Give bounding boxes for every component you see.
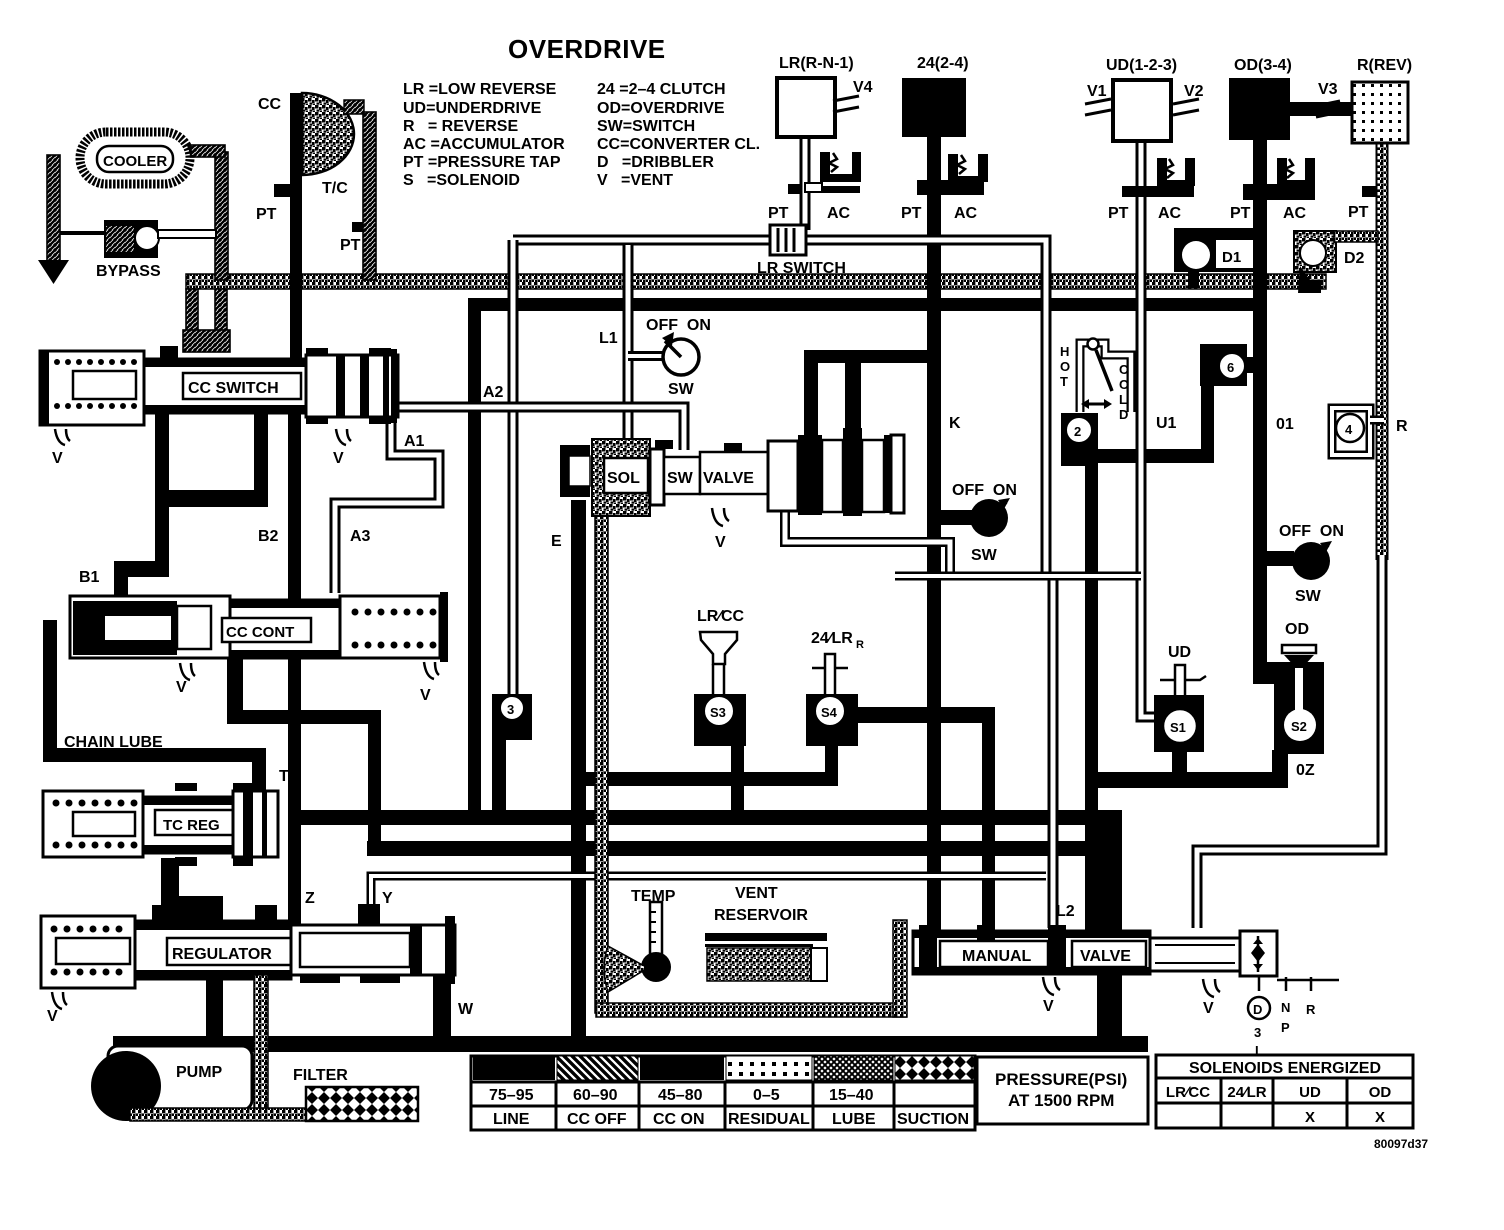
pipe: cooler left pipe down to arrow	[47, 155, 60, 263]
svg-text:CHAIN LUBE: CHAIN LUBE	[64, 734, 163, 751]
svg-text:T: T	[279, 768, 289, 785]
wire: bar3 y848 (x367-1122)	[367, 841, 1122, 856]
svg-text:SW: SW	[1295, 588, 1322, 605]
svg-text:Z: Z	[305, 890, 315, 907]
svg-text:OD=OVERDRIVE: OD=OVERDRIVE	[597, 100, 725, 117]
svg-text:V: V	[47, 1008, 58, 1025]
svg-text:LR SWITCH: LR SWITCH	[757, 260, 846, 277]
wire: B1 vertical x162 and jog to CC CONT	[155, 411, 169, 561]
wire: 24 to SW branch	[936, 510, 972, 525]
svg-text:A2: A2	[483, 384, 504, 401]
wire: long stippled lube line y281	[186, 274, 1326, 289]
manual valve bottom ports and vents	[1043, 977, 1060, 995]
svg-text:S =SOLENOID: S =SOLENOID	[403, 172, 520, 189]
channel: LR switch horizontal line y240 + x1040 vertical + L2 drop	[513, 240, 1053, 928]
svg-text:SW: SW	[667, 470, 694, 487]
svg-text:S3: S3	[710, 705, 726, 720]
svg-text:UD: UD	[1299, 1084, 1321, 1101]
svg-text:CC CONT: CC CONT	[226, 624, 294, 641]
svg-text:D: D	[1119, 407, 1128, 422]
vent V under CC SWITCH left	[55, 429, 70, 445]
svg-text:6: 6	[1227, 360, 1234, 375]
vent V under CC CONT	[180, 663, 195, 680]
svg-text:3: 3	[1254, 1025, 1261, 1040]
svg-text:O: O	[1060, 359, 1070, 374]
svg-text:W: W	[458, 1001, 474, 1018]
svg-text:0–5: 0–5	[753, 1087, 780, 1104]
svg-text:0Z: 0Z	[1296, 762, 1315, 779]
thermometer TEMP	[604, 888, 676, 992]
wire: manual valve bottom drop to bottom bar	[1097, 970, 1122, 1040]
accumulator AC (UD)	[1108, 158, 1195, 222]
svg-text:VENT: VENT	[735, 885, 778, 902]
svg-text:PT: PT	[768, 205, 789, 222]
accumulator AC (24)	[901, 154, 988, 222]
check valve	[1240, 931, 1277, 976]
svg-text:TC REG: TC REG	[163, 817, 220, 834]
node 3 (circled)	[492, 694, 532, 814]
svg-text:V: V	[715, 534, 726, 551]
svg-text:SW=SWITCH: SW=SWITCH	[597, 118, 695, 135]
vent V under CC SWITCH right	[336, 429, 351, 445]
svg-text:RESERVOIR: RESERVOIR	[714, 907, 808, 924]
svg-text:AC: AC	[954, 205, 978, 222]
wire: S1 stub down	[1172, 752, 1187, 774]
UD(1-2-3) servo box	[1085, 57, 1204, 141]
svg-text:UD(1-2-3): UD(1-2-3)	[1106, 57, 1177, 74]
svg-text:V2: V2	[1184, 83, 1204, 100]
OD(3-4) clutch box	[1229, 57, 1352, 140]
svg-text:S4: S4	[821, 705, 838, 720]
wire: CC CONT drop elbow x235,y655-724 right to x381 then down to bar3	[227, 655, 243, 724]
wire: S4 right line to manual valve	[850, 707, 995, 931]
solenoid S2 (OD)	[1253, 621, 1324, 787]
svg-text:24∕LR: 24∕LR	[1227, 1084, 1266, 1101]
svg-text:LR∕CC: LR∕CC	[1166, 1084, 1210, 1101]
svg-text:L2: L2	[1056, 903, 1075, 920]
svg-text:LUBE: LUBE	[832, 1111, 876, 1128]
CC CONT valve	[70, 592, 448, 662]
svg-text:C: C	[1119, 362, 1129, 377]
svg-text:CC ON: CC ON	[653, 1111, 705, 1128]
svg-text:15–40: 15–40	[829, 1087, 874, 1104]
svg-text:Y: Y	[382, 890, 393, 907]
channel: UD line x1141	[1141, 140, 1160, 717]
svg-text:UD=UNDERDRIVE: UD=UNDERDRIVE	[403, 100, 542, 117]
svg-text:VALVE: VALVE	[1080, 948, 1131, 965]
wire: thick line bar y305 (x468-1263)	[468, 298, 1263, 311]
svg-text:D =DRIBBLER: D =DRIBBLER	[597, 154, 714, 171]
T/C assembly	[256, 93, 376, 280]
svg-text:LINE: LINE	[493, 1111, 530, 1128]
switch SW2 (converter clutch, middle)	[952, 482, 1017, 564]
svg-text:D1: D1	[1222, 249, 1241, 266]
switch SW3 (right)	[1279, 523, 1344, 605]
pipe: twin pipes from stipple line to CC SWITCH	[186, 289, 198, 349]
wire: S4 drop x832	[825, 742, 838, 776]
svg-text:SOL: SOL	[607, 470, 640, 487]
svg-text:RESIDUAL: RESIDUAL	[728, 1111, 810, 1128]
svg-text:AC: AC	[1283, 205, 1307, 222]
svg-text:OD: OD	[1369, 1084, 1392, 1101]
svg-text:S1: S1	[1170, 720, 1186, 735]
cooler assembly	[38, 132, 228, 284]
svg-text:P: P	[1281, 1020, 1290, 1035]
svg-text:UD: UD	[1168, 644, 1191, 661]
svg-text:R: R	[1306, 1002, 1316, 1017]
wire: 24/K line vertical x934	[927, 133, 941, 931]
svg-text:75–95: 75–95	[489, 1087, 534, 1104]
wire: regulator drop x214	[206, 975, 223, 1039]
24(2-4) clutch box	[902, 55, 969, 137]
pipe: cooler right pipe	[215, 152, 228, 280]
channel: LR line x805	[800, 135, 811, 230]
svg-text:AC: AC	[827, 205, 851, 222]
wire: bar1 y780 (x577-838)	[577, 772, 838, 786]
channel: valve loop under spool + y576 channel	[785, 508, 1141, 576]
svg-text:LR(R-N-1): LR(R-N-1)	[779, 55, 854, 72]
svg-text:SW: SW	[668, 381, 695, 398]
pipe: suction line pump to filter	[130, 1108, 310, 1121]
svg-text:R(REV): R(REV)	[1357, 57, 1412, 74]
wire: O2 bar y780 (x1085-1288)	[1085, 772, 1288, 788]
pressure tap PT 2	[352, 222, 363, 232]
svg-text:PT: PT	[256, 206, 277, 223]
wire: manual valve wide column x1097-1122	[1097, 810, 1122, 931]
node 2 (circled)	[1061, 413, 1098, 466]
CC SWITCH valve	[40, 346, 398, 425]
svg-text:D2: D2	[1344, 250, 1365, 267]
svg-text:B2: B2	[258, 528, 279, 545]
svg-text:D: D	[1253, 1002, 1262, 1017]
thermal valve HOT/COLD	[1080, 339, 1131, 413]
svg-text:LR =LOW REVERSE: LR =LOW REVERSE	[403, 81, 557, 98]
svg-text:T/C: T/C	[322, 180, 348, 197]
svg-text:24∕LR: 24∕LR	[811, 630, 853, 647]
svg-text:CC OFF: CC OFF	[567, 1111, 627, 1128]
wire: CC line vertical x296	[290, 93, 302, 363]
solenoid S3 with LR/CC funnel	[694, 608, 746, 746]
wire: 2-line vertical x1091 (y463-931)	[1085, 466, 1098, 931]
dribbler D2	[1294, 231, 1378, 293]
svg-text:PT: PT	[901, 205, 922, 222]
R(REV) box	[1352, 57, 1412, 143]
svg-text:CC SWITCH: CC SWITCH	[188, 380, 279, 397]
solenoid block SOL/SW/VALVE	[560, 350, 941, 516]
svg-text:COOLER: COOLER	[103, 153, 167, 170]
solenoids energized table	[1156, 1055, 1413, 1128]
svg-text:FILTER: FILTER	[293, 1067, 348, 1084]
wire: circled2 box link right and up to circled6 box	[1061, 383, 1214, 463]
svg-text:R = REVERSE: R = REVERSE	[403, 118, 518, 135]
LR SWITCH	[757, 225, 846, 277]
channel: R(REV) line right side	[1197, 143, 1382, 928]
node 6 (circled)	[1200, 344, 1255, 386]
cooler oval	[80, 132, 190, 184]
arrow head	[38, 260, 69, 284]
wire: vertical thick x474 (y298-825)	[468, 298, 481, 825]
filter	[306, 1087, 418, 1121]
svg-text:X: X	[1305, 1109, 1315, 1126]
channel: thin line y876 + Y drop	[371, 876, 1046, 921]
wire: CC SWITCH H crossbar	[155, 490, 268, 507]
svg-text:PT: PT	[1230, 205, 1251, 222]
svg-text:2: 2	[1074, 424, 1081, 439]
wire: B2 vertical x294 (CC SWITCH to regulator)	[288, 411, 301, 925]
legend column 2	[597, 81, 760, 189]
svg-text:V: V	[333, 450, 344, 467]
svg-text:LR∕CC: LR∕CC	[697, 608, 745, 625]
svg-text:PT: PT	[340, 237, 361, 254]
svg-text:45–80: 45–80	[658, 1087, 703, 1104]
svg-text:K: K	[949, 415, 961, 432]
wire: chain lube line	[43, 620, 266, 791]
svg-text:OFF ON: OFF ON	[646, 317, 711, 334]
svg-text:MANUAL: MANUAL	[962, 948, 1032, 965]
svg-text:U1: U1	[1156, 415, 1177, 432]
pipe: T/C right pipe	[363, 112, 376, 280]
svg-text:SUCTION: SUCTION	[897, 1111, 969, 1128]
channel: A2 line y407	[397, 407, 684, 450]
svg-text:REGULATOR: REGULATOR	[172, 946, 272, 963]
pipe: reservoir enclosure stipple walls	[596, 1003, 906, 1017]
svg-text:PRESSURE(PSI): PRESSURE(PSI)	[995, 1070, 1127, 1089]
svg-text:V1: V1	[1087, 83, 1107, 100]
svg-text:4: 4	[1345, 422, 1353, 437]
svg-text:3: 3	[507, 702, 514, 717]
switch SW1 (overdrive off/on, open circle)	[646, 317, 711, 398]
selector position labels D 3 L / N P / R	[1248, 977, 1339, 1058]
bypass	[60, 231, 110, 235]
accumulator AC (LR)	[768, 152, 861, 222]
wire: SOL block vertical x578 (y500-1046)	[571, 500, 586, 1046]
svg-text:T: T	[1060, 374, 1068, 389]
svg-text:PUMP: PUMP	[176, 1064, 223, 1081]
svg-text:L1: L1	[599, 330, 618, 347]
solenoid S1 (UD)	[1154, 644, 1206, 752]
pump	[91, 1046, 252, 1121]
svg-text:PT =PRESSURE TAP: PT =PRESSURE TAP	[403, 154, 561, 171]
svg-text:80097d37: 80097d37	[1374, 1137, 1428, 1151]
solenoid S4 with 24/LRr stem	[806, 630, 864, 746]
svg-text:V =VENT: V =VENT	[597, 172, 673, 189]
vent reservoir	[705, 885, 827, 981]
torque converter half-disc	[302, 93, 354, 175]
wire: bar2 y817 (x289-1122)	[289, 810, 1122, 825]
svg-text:R: R	[856, 639, 864, 651]
svg-text:VALVE: VALVE	[703, 470, 754, 487]
svg-text:V: V	[1203, 1000, 1214, 1017]
svg-text:V: V	[52, 450, 63, 467]
accumulator AC (OD)	[1230, 158, 1376, 222]
channel: A1/A3 path	[335, 413, 439, 593]
svg-text:V3: V3	[1318, 81, 1338, 98]
svg-text:AT 1500 RPM: AT 1500 RPM	[1008, 1091, 1114, 1110]
svg-text:SOLENOIDS ENERGIZED: SOLENOIDS ENERGIZED	[1189, 1060, 1381, 1077]
svg-text:N: N	[1281, 1000, 1290, 1015]
pipe: vertical stippled line from SOL block to reservoir bottom	[595, 508, 608, 1013]
dribbler D1	[1174, 228, 1253, 288]
svg-text:B1: B1	[79, 569, 100, 586]
svg-text:OD: OD	[1285, 621, 1309, 638]
pressure psi box	[977, 1057, 1148, 1124]
wire: OD line vertical x1260	[1253, 136, 1267, 684]
svg-text:A3: A3	[350, 528, 371, 545]
svg-text:CC=CONVERTER CL.: CC=CONVERTER CL.	[597, 136, 760, 153]
wire: S2 riser x1281	[1272, 750, 1288, 776]
svg-text:V: V	[420, 687, 431, 704]
node 4 (circled, reverse)	[1332, 408, 1384, 455]
svg-text:OD(3-4): OD(3-4)	[1234, 57, 1292, 74]
svg-text:X: X	[1375, 1109, 1385, 1126]
LR(R-N-1) servo box	[777, 55, 873, 137]
wire: S3 drop x738	[731, 742, 744, 814]
wire: TC REG to regulator connector	[161, 858, 179, 920]
svg-text:PT: PT	[1348, 204, 1369, 221]
wire: OD to SW branch	[1262, 551, 1294, 566]
svg-text:PT: PT	[1108, 205, 1129, 222]
legend column 1	[403, 81, 565, 189]
svg-text:O: O	[1119, 377, 1129, 392]
svg-text:E: E	[551, 533, 562, 550]
svg-text:S2: S2	[1291, 719, 1307, 734]
svg-text:L: L	[1119, 392, 1127, 407]
svg-text:V: V	[176, 679, 187, 696]
svg-text:24(2-4): 24(2-4)	[917, 55, 969, 72]
vent V under solenoid block	[712, 508, 729, 526]
svg-text:24 =2–4 CLUTCH: 24 =2–4 CLUTCH	[597, 81, 726, 98]
channel: L1 line x628 with SW stub	[628, 245, 664, 442]
svg-text:V: V	[1043, 998, 1054, 1015]
TC REG valve	[43, 783, 278, 866]
pressure tap PT on CC line	[274, 184, 291, 197]
svg-text:BYPASS: BYPASS	[96, 263, 161, 280]
svg-text:H: H	[1060, 344, 1069, 359]
pipe: regulator suction stipple drop	[254, 975, 268, 1115]
channel: circled-3 line x513	[508, 240, 519, 697]
pressure legend table	[471, 1056, 975, 1130]
manual valve	[913, 925, 1240, 974]
svg-text:V4: V4	[853, 79, 873, 96]
svg-text:OFF ON: OFF ON	[1279, 523, 1344, 540]
svg-text:R: R	[1396, 418, 1408, 435]
svg-text:01: 01	[1276, 416, 1294, 433]
svg-text:CC: CC	[258, 96, 282, 113]
svg-text:60–90: 60–90	[573, 1087, 618, 1104]
svg-text:SW: SW	[971, 547, 998, 564]
svg-text:AC: AC	[1158, 205, 1182, 222]
svg-text:A1: A1	[404, 433, 425, 450]
vent V under regulator	[52, 992, 67, 1009]
wire: bottom main bar y1044	[113, 1036, 1148, 1052]
svg-text:OFF ON: OFF ON	[952, 482, 1017, 499]
REGULATOR valve	[41, 904, 455, 988]
wire: W drop x442	[433, 950, 451, 1040]
svg-text:AC =ACCUMULATOR: AC =ACCUMULATOR	[403, 136, 565, 153]
svg-text:OVERDRIVE: OVERDRIVE	[508, 34, 666, 64]
